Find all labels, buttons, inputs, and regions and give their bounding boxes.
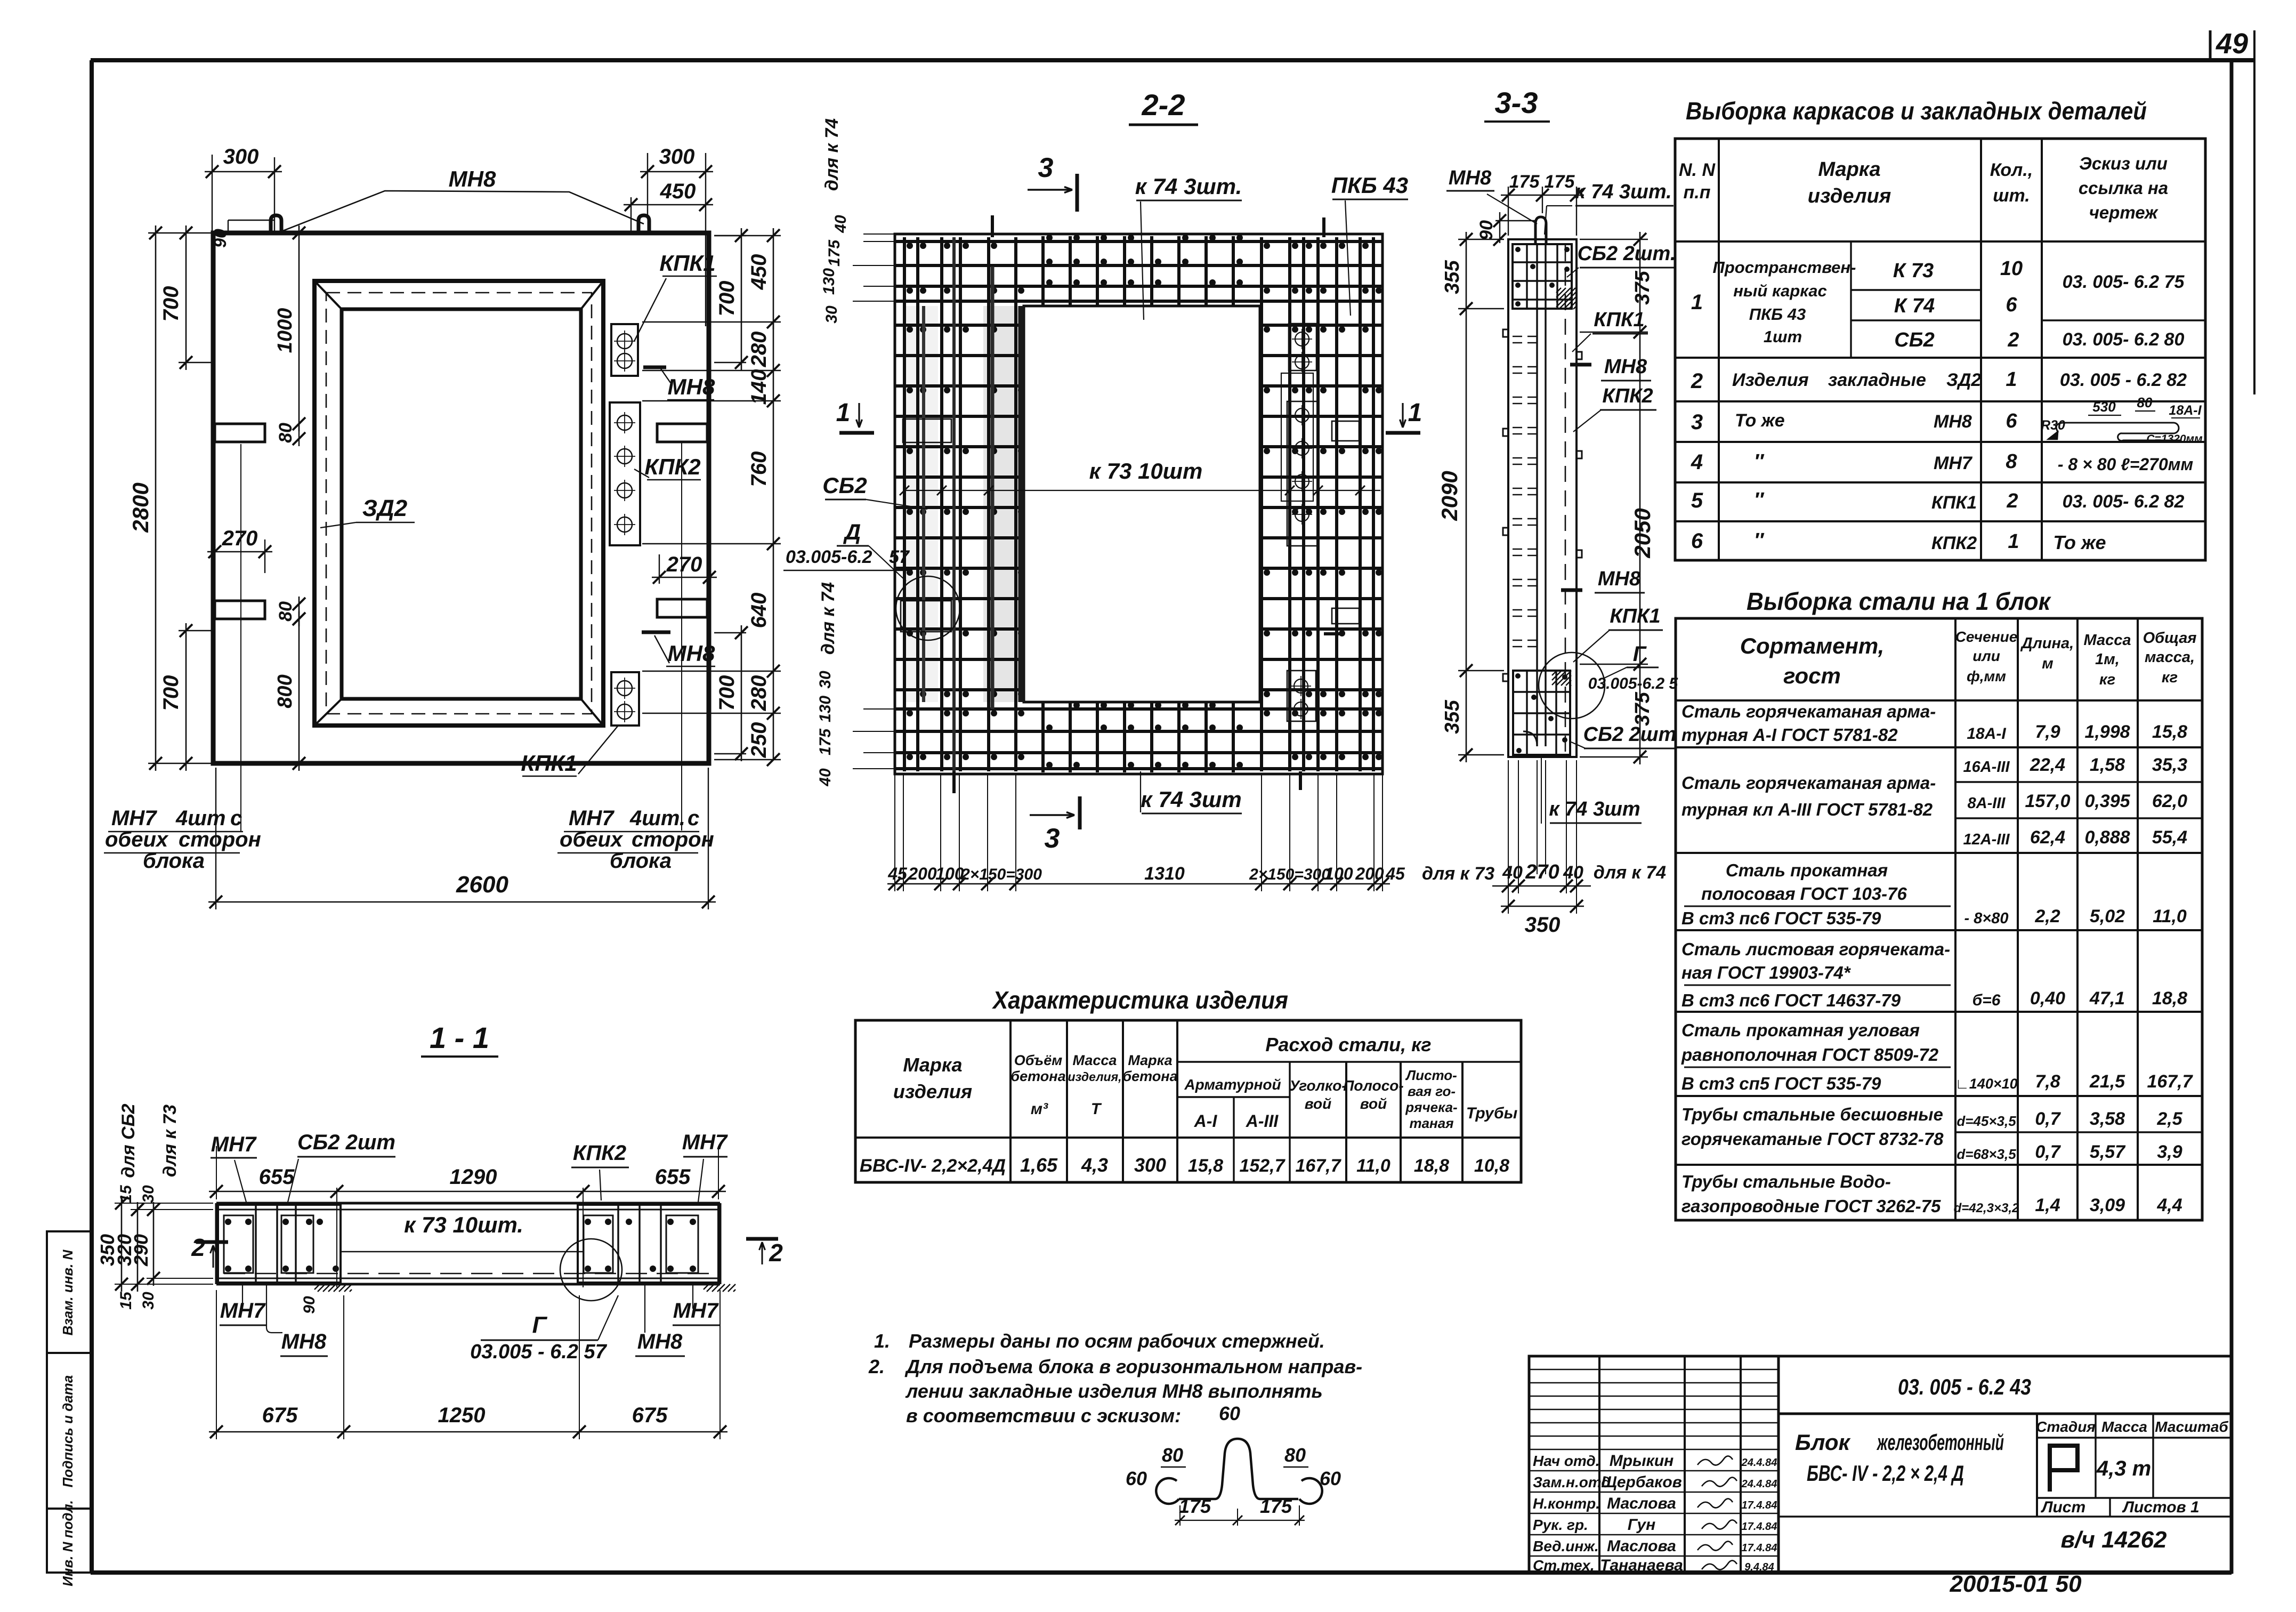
front view: dimension 300 top-right bbox=[647, 153, 648, 215]
svg-text:350: 350 bbox=[1525, 913, 1561, 937]
table 1 row 4: МН7 -8x80 l=270мм bbox=[1675, 481, 2205, 483]
svg-text:2800: 2800 bbox=[128, 482, 153, 533]
svg-text:Т: Т bbox=[1091, 1100, 1102, 1118]
svg-text:d=42,3×3,2: d=42,3×3,2 bbox=[1954, 1201, 2019, 1215]
svg-text:изделия,: изделия, bbox=[1068, 1070, 1121, 1084]
svg-text:Маслова: Маслова bbox=[1607, 1495, 1676, 1512]
svg-text:горячекатаные ГОСТ 8732-78: горячекатаные ГОСТ 8732-78 bbox=[1681, 1129, 1944, 1149]
svg-text:30: 30 bbox=[823, 305, 840, 324]
svg-text:БВС- IV - 2,2 × 2,4 Д: БВС- IV - 2,2 × 2,4 Д bbox=[1807, 1461, 1964, 1486]
front view: dimension 300 top-left bbox=[212, 155, 213, 233]
table 2 row 3: Сталь прокатная полосовая bbox=[1676, 929, 2202, 931]
svg-text:130: 130 bbox=[816, 696, 834, 722]
svg-text:шт.: шт. bbox=[1993, 186, 2030, 206]
svg-text:Сталь горячекатаная арма-: Сталь горячекатаная арма- bbox=[1681, 773, 1936, 793]
section 1-1: к73 10шт leader line bbox=[341, 1251, 584, 1252]
svg-text:КПК2: КПК2 bbox=[1602, 385, 1653, 407]
svg-text:Сталь прокатная угловая: Сталь прокатная угловая bbox=[1681, 1020, 1920, 1040]
svg-text:б=6: б=6 bbox=[1972, 992, 2001, 1009]
section 3-3: dimension 175 175 top bbox=[1508, 187, 1509, 236]
front view: label МН8 lower-right with bar mark bbox=[642, 631, 670, 634]
svg-text:3,58: 3,58 bbox=[2090, 1109, 2125, 1129]
svg-text:d=45×3,5: d=45×3,5 bbox=[1957, 1113, 2016, 1129]
svg-text:4,3: 4,3 bbox=[1081, 1154, 1108, 1176]
svg-text:800: 800 bbox=[274, 674, 296, 708]
title block: outer frame bbox=[1529, 1356, 2232, 1573]
svg-text:СБ2 2шт: СБ2 2шт bbox=[297, 1131, 395, 1154]
svg-text:450: 450 bbox=[747, 254, 771, 291]
front view: left dimension chain 700 top bbox=[179, 362, 212, 363]
svg-text:2×150=300: 2×150=300 bbox=[1249, 866, 1330, 883]
section 1-1: center dashed line bbox=[224, 1273, 714, 1275]
section 2-2: rebar grid horizontal bars top band bbox=[896, 240, 1381, 243]
svg-text:175: 175 bbox=[826, 239, 843, 267]
svg-text:49: 49 bbox=[2216, 28, 2248, 60]
svg-text:железобетонный: железобетонный bbox=[1877, 1430, 2004, 1455]
svg-text:700: 700 bbox=[715, 281, 739, 317]
table 2 row 5: Сталь прокатная угловая bbox=[1676, 1095, 2202, 1097]
svg-text:15,8: 15,8 bbox=[1188, 1156, 1223, 1176]
svg-text:чертеж: чертеж bbox=[2089, 203, 2159, 222]
svg-text:03. 005 - 6.2 82: 03. 005 - 6.2 82 bbox=[2060, 370, 2187, 390]
svg-text:22,4: 22,4 bbox=[2030, 755, 2065, 775]
svg-text:8: 8 bbox=[2006, 450, 2017, 473]
svg-text:обеих: обеих bbox=[560, 828, 624, 851]
front view: leader line from МН7 tabs to note right bbox=[681, 442, 682, 831]
svg-text:бетона: бетона bbox=[1122, 1068, 1177, 1084]
svg-text:100: 100 bbox=[935, 864, 964, 883]
svg-text:21,5: 21,5 bbox=[2089, 1071, 2125, 1092]
svg-text:3,9: 3,9 bbox=[2157, 1142, 2182, 1162]
svg-text:57: 57 bbox=[889, 547, 910, 567]
table 3: расход стали header bbox=[1177, 1061, 1521, 1062]
svg-text:кг: кг bbox=[2099, 671, 2115, 688]
svg-text:сторон: сторон bbox=[632, 828, 714, 851]
svg-text:с: с bbox=[688, 807, 699, 830]
svg-text:МН7: МН7 bbox=[682, 1131, 728, 1154]
svg-text:47,1: 47,1 bbox=[2089, 988, 2125, 1009]
section 3-3: detail circle Г bbox=[1539, 652, 1605, 719]
title block: в/ч 14262 cell bbox=[1778, 1516, 2037, 1517]
svg-text:закладные: закладные bbox=[1828, 370, 1926, 390]
svg-text:03.005 - 6.2 57: 03.005 - 6.2 57 bbox=[470, 1341, 608, 1363]
svg-text:Полосо-: Полосо- bbox=[1343, 1077, 1403, 1094]
svg-text:80: 80 bbox=[276, 423, 296, 443]
svg-text:270: 270 bbox=[666, 553, 702, 576]
svg-text:ная ГОСТ 19903-74*: ная ГОСТ 19903-74* bbox=[1681, 963, 1852, 982]
section 3-3: bottom rebar cage bbox=[1513, 671, 1570, 755]
svg-text:Масштаб: Масштаб bbox=[2155, 1418, 2228, 1435]
table 1: outer box bbox=[1675, 139, 2205, 560]
svg-text:4,3 т: 4,3 т bbox=[2096, 1457, 2151, 1480]
svg-text:Г: Г bbox=[532, 1312, 547, 1338]
front view: leader line from МН7 tabs to note left bbox=[240, 444, 241, 832]
svg-text:62,4: 62,4 bbox=[2030, 827, 2065, 848]
svg-text:1м,: 1м, bbox=[2095, 651, 2120, 668]
svg-text:40: 40 bbox=[832, 215, 850, 233]
svg-text:655: 655 bbox=[259, 1165, 295, 1189]
svg-text:5,57: 5,57 bbox=[2090, 1142, 2126, 1162]
section 2-2: rebar grid vertical bars central bbox=[1041, 236, 1045, 305]
svg-text:1,58: 1,58 bbox=[2090, 755, 2125, 775]
svg-text:80: 80 bbox=[276, 601, 296, 622]
svg-text:А-I: А-I bbox=[1194, 1111, 1218, 1131]
svg-text:760: 760 bbox=[747, 452, 771, 487]
svg-text:Кол.,: Кол., bbox=[1990, 160, 2033, 180]
svg-text:или: или bbox=[1972, 648, 2000, 664]
svg-text:03.005-6.2: 03.005-6.2 bbox=[786, 547, 872, 567]
svg-text:18,8: 18,8 bbox=[2152, 988, 2187, 1009]
svg-text:вой: вой bbox=[1360, 1095, 1387, 1112]
svg-text:1: 1 bbox=[1408, 399, 1422, 427]
svg-text:18А-I: 18А-I bbox=[1967, 725, 2006, 743]
svg-text:6: 6 bbox=[2006, 410, 2017, 432]
svg-text:2,5: 2,5 bbox=[2156, 1109, 2182, 1129]
section 1-1: left dimension chain bbox=[115, 1203, 213, 1204]
svg-text:Тананаева: Тананаева bbox=[1600, 1557, 1683, 1574]
section 3-3: label МН8 lower right with bar mark bbox=[1561, 589, 1582, 592]
svg-text:Сталь листовая горячеката-: Сталь листовая горячеката- bbox=[1681, 939, 1950, 959]
svg-text:4шт: 4шт bbox=[175, 807, 225, 830]
svg-text:ссылка на: ссылка на bbox=[2079, 178, 2168, 198]
svg-text:Сортамент,: Сортамент, bbox=[1740, 633, 1885, 658]
svg-text:ЗД2: ЗД2 bbox=[362, 495, 408, 521]
svg-text:Сталь прокатная: Сталь прокатная bbox=[1726, 860, 1888, 880]
svg-text:10: 10 bbox=[2000, 257, 2023, 280]
title block: signature squiggles bbox=[1697, 1456, 1733, 1465]
svg-text:20015-01 50: 20015-01 50 bbox=[1949, 1571, 2082, 1597]
section 3-3: right dimension chain 375/2050/375 bbox=[1580, 239, 1648, 240]
svg-text:Ст.тех.: Ст.тех. bbox=[1533, 1557, 1595, 1574]
svg-text:5,02: 5,02 bbox=[2090, 906, 2125, 926]
svg-text:7,8: 7,8 bbox=[2035, 1071, 2060, 1092]
section 2-2: left dimension labels top bbox=[863, 241, 895, 242]
svg-text:СБ2 2шт.: СБ2 2шт. bbox=[1578, 243, 1676, 265]
svg-text:к 74 3шт.: к 74 3шт. bbox=[1575, 181, 1671, 203]
svg-text:175: 175 bbox=[1545, 172, 1575, 192]
svg-text:35,3: 35,3 bbox=[2152, 755, 2187, 775]
svg-text:140: 140 bbox=[747, 369, 771, 405]
svg-text:4: 4 bbox=[1691, 450, 1703, 474]
svg-text:0,40: 0,40 bbox=[2030, 988, 2065, 1009]
svg-text:280: 280 bbox=[747, 332, 771, 368]
svg-text:с: с bbox=[230, 807, 242, 830]
svg-text:2,2: 2,2 bbox=[2034, 906, 2060, 926]
svg-text:16А-III: 16А-III bbox=[1963, 759, 2010, 776]
front view: dimension 270 lower-left bbox=[214, 539, 215, 573]
svg-text:Н.контр.: Н.контр. bbox=[1533, 1495, 1600, 1512]
svg-text:Стадия: Стадия bbox=[2036, 1418, 2096, 1435]
front view: right outer chain 450/280/140/760/640/280/250 bbox=[642, 321, 781, 323]
section 2-2: rebar grid vertical bars left band bbox=[903, 237, 906, 771]
svg-text:турная А-I ГОСТ 5781-82: турная А-I ГОСТ 5781-82 bbox=[1681, 725, 1898, 745]
front view: right dimension chain 700 top bbox=[714, 235, 746, 236]
svg-text:Арматурной: Арматурной bbox=[1184, 1076, 1281, 1093]
section 3-3: bottom dimension 40/270/40 bbox=[1508, 760, 1509, 914]
svg-text:0,7: 0,7 bbox=[2035, 1142, 2061, 1162]
svg-text:МН8: МН8 bbox=[637, 1330, 683, 1353]
front view: left dimension chain 700 bottom bbox=[179, 630, 212, 631]
svg-text:ф,мм: ф,мм bbox=[1967, 668, 2006, 684]
section 3-3: dimension 90 top bbox=[1495, 220, 1535, 221]
svg-text:2×150=300: 2×150=300 bbox=[960, 866, 1042, 883]
front view: block outer outline bbox=[213, 233, 709, 763]
section 1-1: dimension 655/1290/655 top bbox=[216, 1146, 217, 1199]
svg-text:СБ2: СБ2 bbox=[822, 473, 867, 498]
svg-text:3-3: 3-3 bbox=[1495, 86, 1538, 119]
svg-text:200: 200 bbox=[1355, 864, 1384, 883]
svg-text:15: 15 bbox=[117, 1184, 135, 1203]
section 3-3: top rebar cage bbox=[1513, 244, 1572, 309]
svg-text:24.4.84: 24.4.84 bbox=[1741, 1457, 1777, 1469]
svg-text:2050: 2050 bbox=[1630, 508, 1655, 558]
title block: left signature columns bbox=[1598, 1356, 1600, 1573]
table 2: column lines bbox=[1954, 618, 1957, 1220]
svg-text:290: 290 bbox=[130, 1234, 152, 1267]
svg-text:Трубы стальные Водо-: Трубы стальные Водо- bbox=[1681, 1172, 1891, 1191]
section 2-2: left dimension labels bottom bbox=[863, 708, 895, 710]
svg-text:Щербаков: Щербаков bbox=[1601, 1473, 1682, 1491]
svg-text:90: 90 bbox=[1476, 220, 1497, 240]
svg-text:В ст3 пс6 ГОСТ 535-79: В ст3 пс6 ГОСТ 535-79 bbox=[1681, 908, 1881, 928]
svg-text:N. N: N. N bbox=[1679, 160, 1716, 180]
svg-text:МН7: МН7 bbox=[569, 807, 615, 830]
svg-text:А-III: А-III bbox=[1246, 1111, 1279, 1131]
front view: МН7 tab lower-right bbox=[657, 599, 707, 617]
svg-text:масса,: масса, bbox=[2145, 649, 2195, 666]
table 3: header bottom line bbox=[855, 1137, 1521, 1139]
svg-text:0,888: 0,888 bbox=[2084, 827, 2130, 848]
svg-text:270: 270 bbox=[1525, 861, 1559, 883]
svg-text:d=68×3,5: d=68×3,5 bbox=[1957, 1146, 2016, 1162]
svg-text:1,998: 1,998 bbox=[2084, 722, 2130, 742]
svg-text:12А-III: 12А-III bbox=[1963, 831, 2010, 848]
svg-text:гост: гост bbox=[1783, 663, 1841, 688]
section 2-2: rebar grid horizontal bars side bands bbox=[896, 324, 1023, 327]
table 2: header bbox=[1676, 699, 2202, 702]
svg-text:1.: 1. bbox=[874, 1330, 890, 1352]
svg-text:03. 005- 6.2 80: 03. 005- 6.2 80 bbox=[2063, 329, 2185, 350]
svg-text:17.4.84: 17.4.84 bbox=[1742, 1542, 1777, 1554]
section 2-2: detail circle Д bbox=[896, 576, 960, 640]
svg-text:280: 280 bbox=[747, 675, 771, 712]
svg-text:4,4: 4,4 bbox=[2156, 1195, 2182, 1215]
svg-text:1: 1 bbox=[1691, 291, 1703, 314]
front view: МН7 tab lower-left bbox=[215, 601, 265, 619]
svg-text:355: 355 bbox=[1441, 699, 1464, 734]
section 2-2: rebar intersection dots bbox=[907, 326, 913, 333]
title block: лист/листов row bbox=[2037, 1497, 2232, 1498]
svg-text:м³: м³ bbox=[1031, 1100, 1048, 1118]
section 2-2: left band smudge strokes bbox=[983, 306, 1023, 702]
svg-text:10,8: 10,8 bbox=[1474, 1156, 1509, 1176]
svg-text:Расход стали, кг: Расход стали, кг bbox=[1265, 1034, 1431, 1055]
svg-text:изделия: изделия bbox=[893, 1081, 972, 1102]
section 2-2: КПК1 plate top right band bbox=[1289, 324, 1316, 370]
svg-text:Листо-: Листо- bbox=[1405, 1067, 1457, 1083]
table 2 row 1: Сталь горячекатаная А-I bbox=[1676, 746, 2202, 748]
svg-text:БВС-IV- 2,2×2,4Д: БВС-IV- 2,2×2,4Д bbox=[860, 1156, 1006, 1176]
svg-text:60: 60 bbox=[1219, 1403, 1240, 1424]
table 1: column lines bbox=[1718, 139, 1720, 560]
svg-text:30: 30 bbox=[140, 1185, 157, 1203]
svg-text:для к 73: для к 73 bbox=[1422, 864, 1494, 884]
svg-text:вая го-: вая го- bbox=[1408, 1083, 1456, 1099]
svg-text:для к 73: для к 73 bbox=[160, 1105, 180, 1177]
svg-text:2-2: 2-2 bbox=[1142, 88, 1185, 122]
svg-text:в/ч 14262: в/ч 14262 bbox=[2060, 1527, 2167, 1553]
svg-text:175: 175 bbox=[1509, 172, 1540, 192]
svg-text:2600: 2600 bbox=[456, 872, 508, 898]
svg-text:для к 74: для к 74 bbox=[818, 582, 838, 655]
svg-text:675: 675 bbox=[632, 1404, 668, 1427]
svg-text:55,4: 55,4 bbox=[2152, 827, 2187, 848]
svg-text:″: ″ bbox=[1754, 450, 1765, 473]
svg-text:МН8: МН8 bbox=[668, 374, 715, 399]
svg-text:КПК1: КПК1 bbox=[1594, 309, 1644, 331]
svg-text:700: 700 bbox=[715, 675, 739, 711]
svg-text:газопроводные ГОСТ 3262-75: газопроводные ГОСТ 3262-75 bbox=[1681, 1196, 1941, 1216]
section 2-2: bar mark right band bbox=[1324, 632, 1343, 635]
svg-text:1000: 1000 bbox=[274, 308, 296, 353]
svg-text:60: 60 bbox=[1126, 1468, 1147, 1489]
front view: dimension 270 lower-right bbox=[659, 554, 660, 584]
svg-text:изделия: изделия bbox=[1808, 185, 1891, 207]
svg-text:2: 2 bbox=[2007, 329, 2019, 351]
svg-text:Объём: Объём bbox=[1014, 1052, 1062, 1068]
svg-text:R30: R30 bbox=[2041, 418, 2065, 433]
svg-text:157,0: 157,0 bbox=[2025, 791, 2070, 811]
svg-text:90: 90 bbox=[211, 229, 230, 248]
svg-text:90: 90 bbox=[301, 1296, 318, 1314]
table 2 row 4: Сталь листовая горячекатаная bbox=[1676, 1011, 2202, 1013]
section 1-1: left cage block bbox=[218, 1205, 341, 1283]
svg-text:таная: таная bbox=[1409, 1115, 1453, 1131]
svg-text:рячека-: рячека- bbox=[1405, 1099, 1457, 1115]
svg-text:Трубы стальные бесшовные: Трубы стальные бесшовные bbox=[1681, 1105, 1943, 1124]
svg-text:ПКБ 43: ПКБ 43 bbox=[1331, 173, 1408, 198]
svg-text:К 74: К 74 bbox=[1894, 295, 1935, 317]
page number 49 bbox=[2209, 30, 2212, 60]
svg-text:2.: 2. bbox=[868, 1356, 885, 1377]
svg-text:80: 80 bbox=[1162, 1444, 1183, 1466]
svg-text:45: 45 bbox=[1385, 864, 1405, 883]
svg-text:45: 45 bbox=[887, 864, 908, 883]
svg-text:равнополочная ГОСТ 8509-72: равнополочная ГОСТ 8509-72 bbox=[1681, 1045, 1939, 1065]
svg-text:Эскиз или: Эскиз или bbox=[2079, 154, 2168, 173]
svg-text:для к 74: для к 74 bbox=[1594, 863, 1666, 883]
table 2 row 2: Сталь горячекатаная кл А-III with 3 subrows bbox=[1676, 852, 2202, 854]
section 1-1: beam end caps bbox=[215, 1203, 218, 1284]
section 1-1: beam bottom lines bbox=[216, 1278, 720, 1279]
svg-text:Марка: Марка bbox=[903, 1054, 962, 1076]
svg-text:375: 375 bbox=[1631, 691, 1654, 726]
svg-text:2: 2 bbox=[191, 1234, 205, 1261]
svg-text:вой: вой bbox=[1305, 1095, 1331, 1112]
front view: КПК2 plate right with holes bbox=[610, 402, 640, 545]
svg-text:152,7: 152,7 bbox=[1239, 1156, 1286, 1176]
svg-text:11,0: 11,0 bbox=[2153, 906, 2187, 926]
svg-text:375: 375 bbox=[1631, 270, 1654, 304]
section 1-1: hatch patches under beam bbox=[314, 1284, 320, 1289]
svg-text:11,0: 11,0 bbox=[1356, 1156, 1390, 1176]
front view: opening bevel inner edge bbox=[342, 309, 581, 699]
front view: bottom dimension 2600 bbox=[215, 768, 216, 909]
front view: КПК1 plate upper-right with holes bbox=[611, 324, 638, 376]
svg-text:к 74 3шт: к 74 3шт bbox=[1549, 798, 1640, 820]
svg-text:к 74 3шт.: к 74 3шт. bbox=[1135, 174, 1242, 199]
svg-text:Марка: Марка bbox=[1128, 1052, 1172, 1068]
front view: lifting loop МН8 right on top edge bbox=[638, 215, 649, 233]
svg-text:300: 300 bbox=[223, 145, 259, 168]
title block: stage letter Р bbox=[2050, 1446, 2077, 1492]
svg-text:Блок: Блок bbox=[1795, 1430, 1850, 1455]
section 1-1: beam top lines bbox=[216, 1202, 720, 1205]
front view: dashed frame line ЗД2 bbox=[326, 293, 592, 714]
table 1 row 3: То же МН8 with bent bar sketch bbox=[1675, 441, 2205, 443]
svg-text:Подпись и дата: Подпись и дата bbox=[60, 1375, 76, 1488]
svg-text:сторон: сторон bbox=[179, 828, 261, 851]
svg-text:6: 6 bbox=[2006, 294, 2017, 316]
svg-text:1 - 1: 1 - 1 bbox=[430, 1021, 489, 1054]
svg-text:03. 005 - 6.2 43: 03. 005 - 6.2 43 bbox=[1898, 1374, 2031, 1399]
svg-text:2090: 2090 bbox=[1437, 471, 1462, 521]
svg-text:для к 74: для к 74 bbox=[822, 118, 842, 191]
svg-text:7,9: 7,9 bbox=[2035, 722, 2060, 742]
front view: opening bevel outer edge bbox=[314, 281, 603, 726]
front view: МН7 tab upper-left bbox=[215, 424, 265, 442]
svg-text:1290: 1290 bbox=[450, 1165, 497, 1189]
svg-text:4шт.: 4шт. bbox=[629, 807, 685, 830]
svg-text:КПК2: КПК2 bbox=[1931, 533, 1977, 553]
svg-text:03.005-6.2 5: 03.005-6.2 5 bbox=[1588, 675, 1679, 692]
svg-text:2: 2 bbox=[2006, 490, 2018, 512]
title block: name cell Блок железобетонный БВС-IV-2,2х2,4Д bbox=[2036, 1414, 2038, 1517]
table 1 row 2: Изделия закладные ЗД2 bbox=[1675, 400, 2205, 402]
svg-text:∟140×10: ∟140×10 bbox=[1955, 1076, 2017, 1092]
front view: МН7 tab upper-right bbox=[657, 424, 707, 442]
svg-text:24.4.84: 24.4.84 bbox=[1741, 1478, 1777, 1490]
svg-text:В ст3 пс6 ГОСТ 14637-79: В ст3 пс6 ГОСТ 14637-79 bbox=[1681, 990, 1901, 1010]
table 2: outer box bbox=[1676, 618, 2202, 1220]
svg-text:Выборка стали на 1 блок: Выборка стали на 1 блок bbox=[1747, 587, 2052, 615]
svg-text:0,395: 0,395 bbox=[2084, 791, 2130, 811]
svg-text:Листов 1: Листов 1 bbox=[2122, 1498, 2199, 1516]
table 3: outer box bbox=[855, 1020, 1521, 1182]
section 2-2: КПК2 plate right band bbox=[1287, 401, 1318, 546]
svg-text:Нач отд.: Нач отд. bbox=[1533, 1453, 1600, 1469]
notes: bent bar sketch omega shape bbox=[1156, 1478, 1179, 1504]
svg-text:МН8: МН8 bbox=[449, 166, 496, 191]
svg-text:3: 3 bbox=[1045, 823, 1060, 854]
section 2-2: К74 bar stubs above and below outline bbox=[991, 215, 994, 237]
svg-text:для СБ2: для СБ2 bbox=[118, 1103, 139, 1178]
front view: bevel corner diagonals bbox=[314, 281, 342, 309]
svg-text:Трубы: Трубы bbox=[1466, 1105, 1518, 1122]
svg-text:270: 270 bbox=[222, 527, 258, 550]
svg-text:КПК1: КПК1 bbox=[521, 751, 577, 776]
svg-text:1: 1 bbox=[836, 399, 851, 427]
svg-text:ПКБ 43: ПКБ 43 bbox=[1749, 305, 1806, 324]
svg-text:Масса: Масса bbox=[1073, 1052, 1117, 1068]
title block: document number cell 03.005-6.2 43 bbox=[1778, 1413, 2232, 1415]
svg-text:700: 700 bbox=[159, 675, 183, 711]
svg-text:КПК1: КПК1 bbox=[659, 251, 715, 276]
svg-text:Инв. N подл.: Инв. N подл. bbox=[60, 1500, 76, 1586]
svg-text:Гун: Гун bbox=[1628, 1516, 1655, 1534]
section 2-2: МН8 outline upper-left band bbox=[903, 419, 951, 442]
svg-text:То же: То же bbox=[1735, 410, 1785, 431]
